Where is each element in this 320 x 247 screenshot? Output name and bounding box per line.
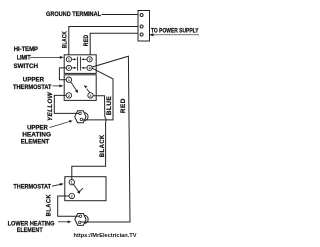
svg-text:BLACK: BLACK <box>63 31 69 49</box>
upper thermostat contact arrow near 4 <box>84 85 90 92</box>
svg-text:RED: RED <box>84 34 90 46</box>
upper thermostat terminal 1 <box>66 77 71 82</box>
hi-temp limit switch box <box>64 55 96 74</box>
svg-text:BLACK: BLACK <box>46 194 53 217</box>
limit switch terminal 3 <box>87 57 92 62</box>
svg-text:BLUE: BLUE <box>107 96 113 116</box>
svg-text:1: 1 <box>68 58 70 62</box>
label HI-TEMP LIMIT SWITCH <box>14 46 39 70</box>
wire blue: limit 4 to upper element <box>83 68 113 120</box>
svg-text:SWITCH: SWITCH <box>14 63 39 70</box>
arrow from THERMOSTAT label to lower box <box>52 183 64 186</box>
svg-text:1: 1 <box>71 181 73 185</box>
label RED (return wire) <box>121 98 127 113</box>
wire red L2 from connector <box>90 33 138 55</box>
watermark https://MrElectrician.TV <box>74 233 137 239</box>
svg-text:THERMOSTAT: THERMOSTAT <box>13 184 51 191</box>
svg-text:UPPER: UPPER <box>23 76 45 83</box>
label BLACK (lower wire) <box>46 194 53 217</box>
svg-text:GROUND TERMINAL: GROUND TERMINAL <box>46 12 101 18</box>
label RED (top wire) <box>84 34 90 46</box>
wire black L1 from connector <box>69 27 138 55</box>
label UPPER HEATING ELEMENT <box>21 124 52 145</box>
svg-text:2: 2 <box>68 66 70 70</box>
arrow from LIMIT label to switch <box>30 56 64 59</box>
svg-text:HEATING: HEATING <box>22 131 51 138</box>
power connector TB1 <box>138 11 150 42</box>
svg-text:BLACK: BLACK <box>99 134 106 157</box>
lower thermostat box <box>65 177 106 201</box>
upper heating element <box>75 111 88 123</box>
svg-text:ELEMENT: ELEMENT <box>21 138 50 145</box>
wire link limit 2 to thermostat 1 <box>59 68 66 80</box>
arrow from THERMOSTAT label to box <box>53 84 64 87</box>
limit switch contact arrows row 1 <box>72 58 88 60</box>
lower thermostat terminal 2 <box>69 193 74 198</box>
svg-text:YELLOW: YELLOW <box>48 91 54 121</box>
svg-text:4: 4 <box>89 66 91 70</box>
label TO POWER SUPPLY <box>151 29 199 35</box>
svg-text:2: 2 <box>71 194 73 198</box>
label LOWER HEATING ELEMENT <box>8 220 55 234</box>
limit switch terminal 4 <box>87 65 92 70</box>
wire yellow: thermostat 2 to upper element <box>54 95 79 113</box>
wire black: upper thermostat 4 to lower thermostat 1 <box>72 96 106 180</box>
svg-text:https://MrElectrician.TV: https://MrElectrician.TV <box>74 233 137 239</box>
label YELLOW <box>48 91 54 121</box>
svg-text:LIMIT: LIMIT <box>17 55 31 62</box>
arrow from label to lower element <box>58 220 71 223</box>
wire ground to connector <box>102 14 139 16</box>
svg-text:TO POWER SUPPLY: TO POWER SUPPLY <box>151 29 199 35</box>
leader arrow to upper element <box>50 120 73 128</box>
label GROUND TERMINAL <box>46 12 101 18</box>
label THERMOSTAT (lower) <box>13 184 51 191</box>
limit switch terminal 1 <box>66 57 71 62</box>
lower thermostat terminal 1 <box>69 180 74 185</box>
wire red return: limit 4 to lower element <box>81 56 130 222</box>
lower heating element <box>75 214 88 226</box>
svg-text:4: 4 <box>90 94 92 98</box>
svg-text:3: 3 <box>89 58 91 62</box>
wire black: lower thermostat 2 to lower element <box>58 196 80 216</box>
limit switch contact arrows row 2 <box>72 67 88 69</box>
svg-text:1: 1 <box>68 78 70 82</box>
label BLACK (top wire) <box>63 31 69 49</box>
upper thermostat terminal 4 <box>88 93 93 98</box>
svg-text:HI-TEMP: HI-TEMP <box>14 46 38 53</box>
upper thermostat terminal 2 <box>66 93 71 98</box>
limit switch contact bars <box>78 57 81 71</box>
limit switch terminal 2 <box>66 65 71 70</box>
upper thermostat blade <box>71 82 79 93</box>
upper thermostat box <box>64 75 96 101</box>
label UPPER THERMOSTAT <box>13 76 52 91</box>
lower thermostat blade <box>74 184 83 194</box>
svg-text:ELEMENT: ELEMENT <box>17 227 43 234</box>
arrow to power supply <box>149 33 199 36</box>
label BLUE <box>107 96 113 116</box>
svg-text:2: 2 <box>68 94 70 98</box>
label BLACK (middle wire) <box>99 134 106 157</box>
svg-text:THERMOSTAT: THERMOSTAT <box>13 84 52 91</box>
svg-text:RED: RED <box>121 98 127 113</box>
